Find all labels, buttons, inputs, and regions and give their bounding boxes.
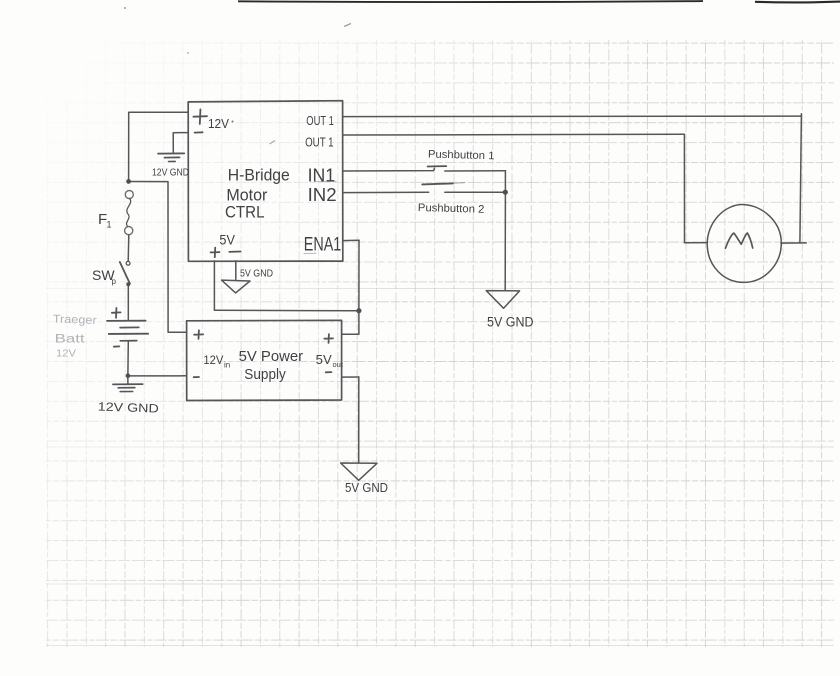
svg-text:IN2: IN2 — [308, 185, 337, 205]
svg-text:1: 1 — [107, 220, 112, 230]
svg-text:OUT 1: OUT 1 — [306, 113, 334, 128]
svg-text:OUT 1: OUT 1 — [305, 135, 334, 150]
svg-text:IN1: IN1 — [308, 166, 336, 186]
svg-text:5V GND: 5V GND — [487, 315, 534, 330]
svg-text:12V GND: 12V GND — [98, 400, 160, 416]
svg-text:5V GND: 5V GND — [345, 481, 388, 495]
svg-text:out: out — [333, 360, 344, 369]
svg-text:12V: 12V — [56, 348, 76, 360]
svg-text:5V: 5V — [219, 232, 235, 248]
svg-text:12V GND: 12V GND — [152, 168, 189, 179]
svg-text:5V: 5V — [316, 352, 332, 367]
svg-text:Pushbutton 2: Pushbutton 2 — [418, 202, 485, 216]
svg-text:H-Bridge: H-Bridge — [228, 166, 290, 185]
svg-text:Supply: Supply — [244, 366, 286, 383]
svg-text:5V Power: 5V Power — [239, 348, 304, 365]
svg-text:5V GND: 5V GND — [240, 268, 273, 280]
svg-text:Pushbutton 1: Pushbutton 1 — [428, 149, 495, 163]
svg-text:p: p — [112, 277, 117, 286]
svg-text:Traeger: Traeger — [52, 314, 97, 328]
svg-text:12V: 12V — [203, 353, 223, 367]
svg-text:Batt: Batt — [55, 334, 86, 346]
svg-text:in: in — [224, 361, 230, 370]
svg-text:ENA1: ENA1 — [304, 235, 342, 256]
svg-text:12V: 12V — [208, 116, 229, 131]
svg-text:CTRL: CTRL — [225, 203, 265, 222]
